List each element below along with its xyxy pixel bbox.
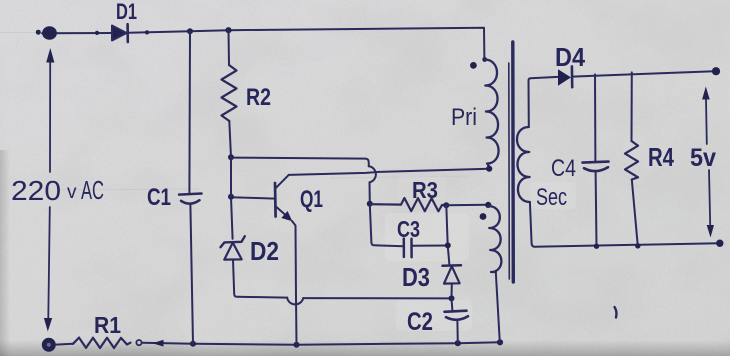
node dot on rail xyxy=(95,31,99,35)
wire C1 branch upper xyxy=(188,31,191,193)
node winding bottom end xyxy=(497,339,503,345)
svg-text:C4: C4 xyxy=(551,155,576,182)
node primary bottom junction xyxy=(486,166,492,172)
diode D4 xyxy=(558,69,571,86)
node D3 bottom junction xyxy=(449,295,455,301)
wire hop over collector line xyxy=(369,166,376,182)
svg-text:D2: D2 xyxy=(250,236,279,266)
transformer core xyxy=(508,63,511,279)
wire rail to D3 node xyxy=(303,297,451,299)
zener D2 xyxy=(221,236,245,247)
wire bottom rail left xyxy=(56,343,73,346)
resistor R3 xyxy=(370,198,446,211)
diode D1 xyxy=(112,26,127,41)
wire hop over emitter xyxy=(287,298,303,305)
svg-text:C2: C2 xyxy=(407,308,433,336)
wire feedback bottom xyxy=(496,272,500,342)
stray ink mark xyxy=(615,307,617,318)
capacitor C3 xyxy=(403,239,406,258)
resistor R2 xyxy=(222,65,237,121)
wire C4 branch xyxy=(594,74,596,161)
5V arrow up head xyxy=(702,87,710,100)
resistor R4 xyxy=(625,141,638,180)
wire output top rail xyxy=(572,71,714,76)
node A junction xyxy=(367,201,373,207)
svg-text:R1: R1 xyxy=(94,312,121,338)
svg-text:Pri: Pri xyxy=(451,104,477,131)
diode D3 xyxy=(443,264,462,267)
node R2 top junction xyxy=(225,27,231,33)
feedback winding xyxy=(488,206,501,272)
svg-text:D4: D4 xyxy=(555,42,585,72)
node C4 bottom xyxy=(594,244,599,249)
svg-text:C1: C1 xyxy=(147,184,171,211)
AC input bottom terminal xyxy=(42,338,56,352)
capacitor C2 xyxy=(445,311,467,312)
220vAC measure arrow (down head) xyxy=(48,207,50,318)
node C1 bottom junction xyxy=(190,341,196,347)
node small circle xyxy=(136,340,141,345)
svg-text:Q1: Q1 xyxy=(300,186,323,213)
node C2 bottom junction xyxy=(455,340,461,346)
wire secondary bottom xyxy=(530,202,719,247)
output bottom terminal xyxy=(716,240,723,247)
svg-text:v: v xyxy=(67,182,77,203)
wire node B to feedback winding xyxy=(446,204,488,207)
220vAC measure arrow (up head) xyxy=(49,62,51,173)
wire R2 top lead xyxy=(228,30,231,65)
wire D3 bottom xyxy=(451,284,453,299)
wire C2 bottom lead xyxy=(456,322,458,344)
AC input top terminal xyxy=(42,26,57,40)
whiteout patches xyxy=(385,176,576,331)
svg-text:Sec: Sec xyxy=(536,184,567,211)
node base junction xyxy=(228,194,234,200)
wire C4 bottom lead xyxy=(595,172,598,246)
svg-text:5v: 5v xyxy=(690,144,716,172)
wire secondary top to D4 xyxy=(529,77,559,127)
primary phase dot xyxy=(470,62,477,69)
5V arrow down head xyxy=(709,170,710,225)
wire node B down to D3 xyxy=(446,205,449,264)
wire D3 node to C2 xyxy=(451,298,454,310)
capacitor C4 xyxy=(583,162,609,163)
node R4 bottom xyxy=(635,243,640,248)
svg-text:D1: D1 xyxy=(116,0,137,24)
svg-text:220: 220 xyxy=(11,175,61,206)
svg-text:R3: R3 xyxy=(412,177,438,203)
wire bottom rail mid xyxy=(193,342,500,344)
wire hop to node A xyxy=(369,182,371,203)
wire D2 bottom xyxy=(233,260,287,298)
wire R4 top lead xyxy=(631,72,633,141)
svg-text:D3: D3 xyxy=(402,262,430,292)
wire Q1 emitter down xyxy=(292,221,297,345)
transistor Q1 xyxy=(274,183,277,217)
faint ruled pencil lines xyxy=(0,33,470,191)
svg-text:R4: R4 xyxy=(648,142,674,172)
node R2 bottom junction xyxy=(228,154,234,160)
wire node A down to C3 xyxy=(370,204,404,246)
wire base-D2 vertical xyxy=(231,158,233,239)
node emitter bottom junction xyxy=(294,342,300,348)
secondary winding xyxy=(517,127,530,202)
wire base node to Q1 xyxy=(231,197,275,198)
transformer primary winding xyxy=(482,57,487,62)
wire C1 branch lower xyxy=(190,205,193,344)
svg-text:AC: AC xyxy=(81,175,104,205)
output top terminal xyxy=(712,67,720,75)
resistor R1 xyxy=(73,338,131,348)
svg-text:R2: R2 xyxy=(246,84,271,111)
wire C3 right lead xyxy=(412,245,448,247)
wire bottom rail with left arrow xyxy=(142,343,193,344)
wire R2 junction to hop xyxy=(231,158,369,167)
capacitor C1 xyxy=(179,194,202,195)
wire R4 bottom lead xyxy=(632,180,638,246)
wire R2 bottom lead xyxy=(229,121,231,157)
feedback phase dot xyxy=(480,213,487,220)
node C1 top junction xyxy=(187,28,193,34)
node feedback top junction xyxy=(485,202,491,208)
svg-text:C3: C3 xyxy=(397,216,420,242)
wire top rail xyxy=(42,32,112,34)
node R3 right junction xyxy=(443,202,449,208)
node C3 right junction xyxy=(445,242,451,248)
wire Q1 collector line to primary xyxy=(289,169,489,175)
node dot on rail xyxy=(145,30,149,34)
